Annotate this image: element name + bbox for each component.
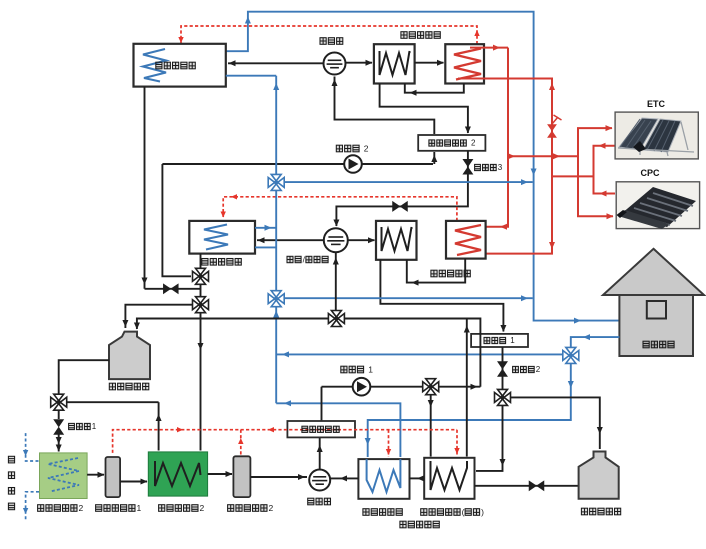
valve 节流阀3 [464,160,472,174]
wire house return to blue valve571 [571,337,620,347]
wire red return trunk from generators to collectors [470,47,508,49]
wire valve502 to 溶冷吸收器 [476,406,503,471]
wire 混合分离罐 bottom to valve336 [335,252,337,310]
box 换热器1 [471,334,528,347]
wire valve58 right to 低压发生器2 [67,401,159,403]
wire 蒸发器 to 分离器1 [87,474,104,476]
svg-text:CPC: CPC [640,168,660,178]
wire blue valve571 down to 水冷吸收器 [368,364,571,458]
label 环境空气 [8,456,14,509]
label 中压发生器 [431,270,470,277]
valve 4way 276 [193,268,209,284]
wire red supply trunk to coil bottoms [453,79,552,254]
label 低压吸收器 [400,521,439,528]
wire blue valve-upper to trunk [285,181,533,183]
house 换热末端 [603,249,704,356]
photo ETC collector [615,112,698,159]
wire 节流阀1 to 低压蒸发器2 [58,435,60,452]
photo CPC collector [616,182,699,229]
wire 混合分离罐 to 中压发生器 [348,239,375,241]
box 低压蒸发器2 [40,453,88,499]
wire 高压发生器 exchanger to 溶液换热器2 [380,84,468,134]
wire loop pump1 to valve336 [345,319,481,387]
wire pump1 line [322,386,481,388]
valve 节流阀2 [498,362,506,376]
wire 混合罐 to 气液换热器 [319,437,321,469]
wire 中压发生器 to 换热器1 [380,260,503,332]
wire valve502 to 稀溶液储罐 [511,397,600,449]
valve bowtie 536 [530,482,544,490]
tank 浓溶液储罐 [109,332,150,380]
wire 分离罐 to 高压发生器 [346,62,373,64]
wire: 高压吸收器 outlet to heating supply trunk (blue) [226,12,620,321]
svg-text:2: 2 [364,143,369,153]
svg-text:1: 1 [92,422,97,431]
wire 分离器1 to 低压发生器2 [120,481,147,483]
node 分离罐 [324,53,346,75]
box 低压发生器2 [148,452,207,496]
wire pump1 suction riser [321,387,323,421]
wire 混合分离罐 to 中压吸收器 [257,239,324,241]
wire 分离罐 bottom to 溶液换热器2 top [335,77,435,135]
wire 水冷 to 混合罐 [330,477,358,479]
valve on line to 混合分离罐 [393,202,407,210]
wire blue valve-lower to trunk [285,297,533,299]
wire left riser from pump2 line to valve [162,164,191,276]
pump 溶液泵1 [353,378,371,396]
box 高压吸收器 [134,44,226,87]
wire 分离器2 to 混合罐 [250,476,307,478]
label 高压发生器 [401,32,440,39]
wire red dashed 中压发生器 to 中压吸收器 [223,197,457,221]
svg-text:2: 2 [536,365,541,374]
box 气液换热器 [287,421,355,437]
wire blue dashed ambient air out [26,492,39,520]
valve 4way 336 [328,311,344,327]
wire 分离罐 to 高压吸收器 [228,62,324,64]
wire 溶液换热器2 to 混合分离罐 via 节流阀3 [336,151,468,226]
svg-text:2: 2 [269,503,274,513]
wire 中压吸收器 bottom chain [200,254,202,269]
wire 溶冷 to 水冷 [410,477,425,479]
box 中压发生器 exchanger [376,221,417,260]
valve 4way 58 [51,394,67,410]
valve 4way 304 [193,297,209,313]
svg-text:2: 2 [200,503,205,513]
box 中压吸收器 [189,221,255,254]
vessel 气液分离器2 [233,456,250,497]
label 高压吸收器 [156,62,196,69]
box 溶液换热器2 [418,135,485,151]
wire 高压发生器 black to red [415,62,444,64]
wire valve336 to 浓溶液储罐 [137,319,328,330]
svg-text:3: 3 [498,163,503,172]
wire: red dashed heat line from 高压发生器 to 高压吸收器 [181,26,477,44]
wire 溶液泵2 line [162,163,433,165]
wire valve304 to tank neck [125,305,192,328]
wire blue trunk 中压吸收器 [226,75,276,77]
wire valve430 down to 溶冷吸收器 [430,395,432,457]
box 溶冷吸收器(同级) [424,458,474,499]
box 水冷吸收器 [358,459,409,499]
svg-text:2: 2 [79,503,84,513]
valve 节流阀1 [55,420,63,434]
wire valve58 down [58,410,60,419]
box 高压发生器 exchanger [374,44,415,83]
valve 4way on pump1 line [423,379,439,395]
node 混合/分离罐 [324,228,348,252]
tank 稀溶液储罐 [579,452,619,499]
valve 4way near 换热器1 [495,389,511,405]
vessel 气液分离器1 [106,457,121,497]
wire blue valve571 left long [276,353,562,355]
valve red on supply [549,125,556,137]
wire blue dashed ambient air in [26,433,39,461]
wire 溶冷 to 稀溶液储罐 [475,485,579,487]
wire 溶冷 riser up to 换热器 loop [466,319,468,457]
wire 中压 red-unit loop [407,259,465,283]
box 高压发生器 red coil unit [445,44,484,83]
wire red collector feed [578,128,613,216]
svg-text:): ) [481,507,484,517]
wire blue 水冷 return to trunk [276,403,400,457]
wire tank to valve58 [59,360,109,394]
valve blue upper [268,174,284,190]
svg-text:1: 1 [137,503,142,513]
valve blue lower [268,291,284,307]
svg-text:ETC: ETC [647,99,666,109]
wire red-unit bottom loop to exchanger [405,84,464,93]
node 混合罐 [309,470,330,491]
wire red dashed vapor trunk [113,430,457,453]
wire 发生器2 to 分离器2 [208,473,232,475]
svg-text:(: ( [462,507,465,517]
svg-text:2: 2 [471,139,476,148]
box 中压发生器 red coil unit [446,221,486,259]
valve blue 571 [563,347,579,363]
svg-text:1: 1 [368,364,373,374]
wire 高压吸收器 left drop [144,87,146,289]
wire red collector outlet merge [594,146,616,194]
label 气液换热器 [302,426,339,432]
valve bowtie 170 [164,285,178,293]
wire 节流阀2 line [502,347,504,389]
pump 溶液泵2 [344,155,362,173]
svg-text:1: 1 [510,336,515,345]
